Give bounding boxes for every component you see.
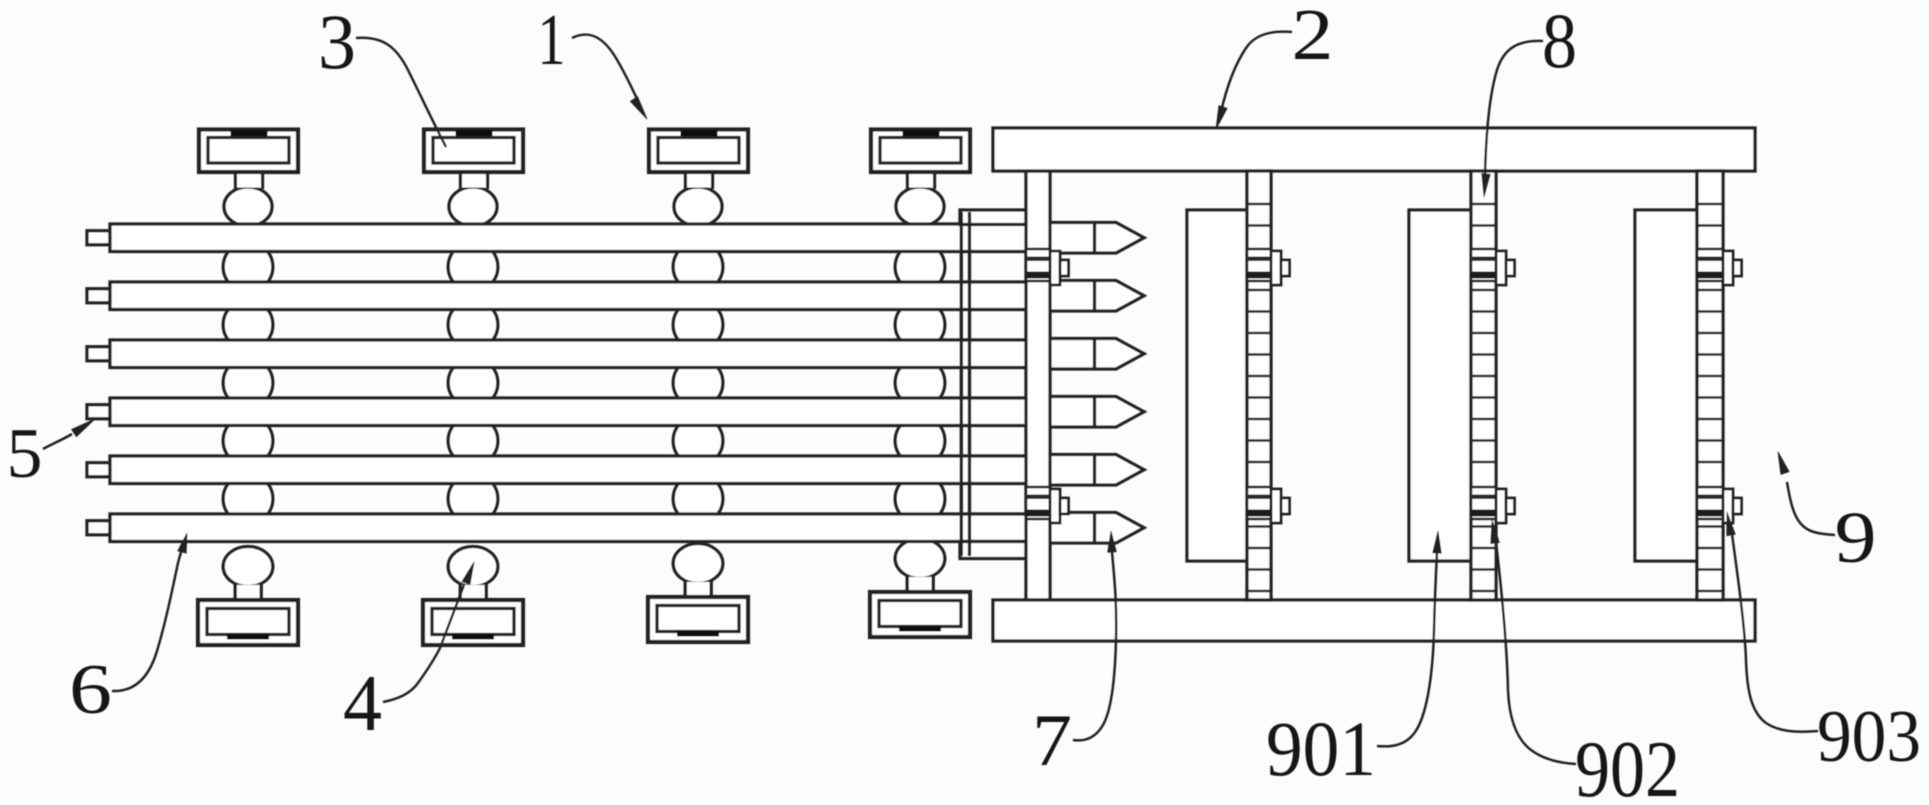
clamp mount 2 bottom slot	[452, 634, 494, 640]
svg-text:902: 902	[1575, 724, 1680, 800]
svg-text:3: 3	[318, 0, 356, 85]
clamp mount 4 bottom inner	[879, 601, 961, 627]
leader 902 to bolt lower on post 3	[1496, 542, 1576, 764]
clamp mount 4 top slot	[903, 130, 940, 136]
wire rod 1	[110, 224, 1030, 252]
wire rod 5 left cap	[87, 463, 110, 477]
wire column 3 bottom ball	[673, 544, 723, 584]
svg-text:901: 901	[1266, 705, 1376, 792]
clamp mount 1 bottom inner	[207, 609, 289, 635]
clamp mount 3 bottom outer	[648, 597, 748, 642]
leader 4 to column 2 bottom ball	[383, 585, 464, 702]
svg-text:4: 4	[343, 660, 382, 748]
plate 901-2	[1409, 210, 1471, 561]
clamp mount 4 bottom slot	[899, 626, 941, 632]
leader 7 to spike arrow 6	[1073, 552, 1116, 740]
wire rod 3 left cap	[87, 347, 110, 361]
spike arrow 5	[1045, 455, 1144, 486]
clamp mount 1 bottom slot	[227, 634, 269, 640]
bolt lower on post 1 (902 type)	[1026, 487, 1050, 519]
post 2 vertical rack column	[1247, 171, 1271, 600]
clamp mount 3 bottom slot	[677, 631, 719, 637]
wire rod 6 left cap	[87, 521, 110, 535]
rod-end bracket bottom bar	[960, 542, 1026, 559]
wire rod 3	[110, 340, 1030, 368]
wire column 2 bottom stem	[462, 585, 486, 601]
leader 2 to top beam	[1221, 32, 1292, 112]
wire column 4 roller chain circles	[895, 242, 945, 524]
spike arrow 1	[1045, 223, 1144, 254]
wire rod 4 left cap	[87, 405, 110, 419]
leader 1 to clamp mount 3	[572, 35, 638, 101]
clamp mount 3 top slot	[681, 130, 718, 136]
bottom beam	[993, 600, 1755, 641]
wire column 1 top ball	[224, 187, 272, 226]
wire rod 2 left cap	[87, 289, 110, 303]
clamp mount 4 top inner	[880, 138, 961, 164]
bolt upper on post 1	[1026, 249, 1050, 281]
spike arrow 3	[1045, 339, 1144, 370]
wire column 3 roller chain circles	[673, 242, 723, 524]
wire rod 4	[110, 398, 1030, 426]
clamp mount 1 top inner	[208, 138, 289, 164]
clamp mount 2 bottom inner	[432, 609, 514, 635]
svg-text:903: 903	[1817, 696, 1921, 778]
wire rod 5	[110, 456, 1030, 484]
bolt upper on post 4	[1697, 249, 1723, 281]
wire column 3 bottom stem	[687, 582, 711, 598]
rod-end bracket vertical plate	[961, 212, 969, 556]
clamp mount 3 top inner	[658, 138, 739, 164]
leader 5 to rod 4 cap	[43, 434, 72, 449]
leader 8 to post 3	[1485, 41, 1543, 175]
wire column 4 top stem	[908, 172, 935, 190]
svg-text:1: 1	[538, 0, 566, 80]
clamp mount 3 bottom inner	[657, 606, 739, 632]
plate 901-1	[1187, 210, 1247, 561]
bolt lower on post 3 (902 type)	[1471, 487, 1496, 519]
clamp mount 1 top outer	[199, 130, 298, 173]
wire column 4 bottom ball	[895, 539, 945, 579]
wire rod 1 left cap	[87, 231, 110, 245]
post 3 vertical rack column	[1471, 171, 1496, 600]
svg-text:5: 5	[7, 415, 43, 493]
spike arrow 6	[1045, 513, 1144, 544]
wire column 3 top ball	[674, 187, 722, 226]
wire column 3 top stem	[686, 172, 713, 190]
svg-text:9: 9	[1835, 497, 1877, 578]
svg-text:2: 2	[1292, 0, 1334, 75]
post 4 vertical rack column	[1697, 171, 1723, 600]
clamp mount 2 top inner	[433, 138, 514, 164]
bolt lower on post 4 (902 type)	[1697, 487, 1723, 519]
spike arrow 4	[1045, 397, 1144, 428]
clamp mount 2 top outer	[424, 130, 523, 173]
plate 901-3	[1635, 210, 1697, 561]
svg-text:8: 8	[1542, 0, 1577, 84]
rod-end bracket top bar	[960, 210, 1026, 225]
wire column 2 bottom ball	[448, 547, 498, 587]
leader 903 to bolt lower on post 4	[1732, 534, 1818, 732]
leader 3 to clamp mount 2	[356, 38, 446, 147]
svg-text:6: 6	[69, 651, 112, 729]
clamp mount 2 top slot	[456, 130, 493, 136]
wire column 1 bottom ball	[223, 547, 273, 587]
top beam (2)	[993, 128, 1755, 171]
wire column 2 roller chain circles	[448, 242, 498, 524]
clamp mount 3 top outer	[649, 130, 748, 173]
leader 6 to rod 6	[112, 543, 184, 691]
clamp mount 2 bottom outer	[423, 600, 523, 645]
wire rod 6	[110, 514, 1030, 542]
wire column 4 top ball	[896, 187, 944, 226]
leader 901 to plate 2	[1377, 552, 1437, 746]
wire rod 2	[110, 282, 1030, 310]
clamp mount 1 top slot	[231, 130, 268, 136]
spike arrow 2	[1045, 281, 1144, 312]
leader 9 frame	[1787, 482, 1835, 535]
svg-text:7: 7	[1032, 700, 1072, 782]
wire column 4 bottom stem	[909, 577, 933, 593]
clamp mount 1 bottom outer	[198, 600, 298, 645]
bolt lower on post 2 (902 type)	[1247, 487, 1271, 519]
wire column 2 top ball	[449, 187, 497, 226]
wire column 2 top stem	[461, 172, 488, 190]
bolt upper on post 2	[1247, 249, 1271, 281]
clamp mount 4 bottom outer	[870, 592, 970, 637]
clamp mount 4 top outer	[871, 130, 970, 173]
bolt upper on post 3	[1471, 249, 1496, 281]
wire column 1 top stem	[236, 172, 263, 190]
post 1 vertical column	[1026, 171, 1050, 600]
wire column 1 bottom stem	[237, 585, 261, 601]
wire column 1 roller chain circles	[223, 242, 273, 524]
